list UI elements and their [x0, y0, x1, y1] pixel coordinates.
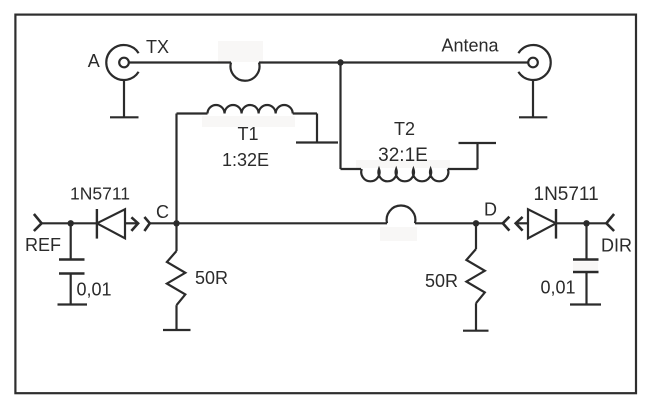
wire T1 left terminal down to node C	[175, 114, 177, 224]
resistor R2 50R	[466, 223, 484, 330]
ground at T2 right terminal	[459, 143, 497, 169]
wire node D to chevron	[476, 222, 503, 224]
capacitor C2 0,01 (right)	[573, 223, 599, 304]
connector TX (BNC)	[106, 45, 138, 80]
svg-text:50R: 50R	[195, 268, 228, 288]
faint artifact rects	[202, 41, 598, 270]
port REF chevron	[34, 214, 42, 231]
svg-text:DIR: DIR	[601, 236, 632, 256]
capacitor C1 0,01 (left)	[59, 223, 85, 304]
diode D2 1N5711 (cathode bar right, pointing right)	[528, 209, 556, 239]
node REF junction	[68, 220, 74, 226]
svg-text:0,01: 0,01	[541, 278, 576, 298]
svg-text:Antena: Antena	[442, 36, 500, 56]
transformer T1 winding	[177, 105, 318, 114]
wire junction down to T2	[339, 63, 341, 170]
port chevron after node D	[503, 217, 510, 231]
ground under C1	[58, 303, 88, 305]
svg-text:50R: 50R	[425, 271, 458, 291]
wire REF port to REF node	[42, 222, 71, 224]
node DIR junction	[583, 220, 589, 226]
svg-text:D: D	[484, 200, 497, 220]
wire REF node to diode D1	[71, 222, 97, 224]
svg-text:1N5711: 1N5711	[70, 184, 130, 204]
svg-text:0,01: 0,01	[77, 280, 112, 300]
svg-text:A: A	[88, 51, 100, 71]
wire junction to Antena connector	[341, 61, 529, 63]
svg-text:C: C	[156, 202, 169, 222]
port chevron before node C	[144, 217, 149, 231]
wire D2 to DIR node	[556, 222, 587, 224]
ground under Antena connector	[519, 80, 547, 117]
svg-text:1:32E: 1:32E	[222, 150, 269, 170]
wire TX to junction (with hop)	[129, 63, 341, 81]
svg-text:T1: T1	[237, 124, 258, 144]
svg-text:REF: REF	[25, 235, 61, 255]
ground at T1 right terminal	[296, 114, 338, 143]
diode D1 1N5711 (cathode bar left, pointing left)	[97, 209, 125, 239]
ground under R2	[463, 330, 489, 332]
wire chevron to node C	[150, 222, 177, 224]
svg-text:TX: TX	[146, 37, 169, 57]
port DIR chevron	[606, 214, 614, 231]
ground under R1	[163, 329, 191, 331]
wire node C to node D (with hop)	[177, 206, 477, 224]
node D	[473, 220, 479, 226]
svg-text:32:1E: 32:1E	[378, 145, 428, 166]
ground under TX connector	[110, 80, 139, 117]
ground under C2	[570, 303, 601, 305]
node junction at antenna tap	[337, 59, 343, 65]
connector arrow before D2	[516, 217, 528, 231]
resistor R1 50R	[167, 223, 185, 330]
svg-text:T2: T2	[394, 119, 415, 139]
transformer T2 winding	[341, 169, 478, 181]
connector arrow after D1	[125, 217, 138, 231]
svg-text:1N5711: 1N5711	[534, 184, 599, 205]
node C	[173, 220, 179, 226]
wire DIR node to DIR port	[587, 222, 607, 224]
connector Antena (BNC)	[518, 45, 550, 80]
